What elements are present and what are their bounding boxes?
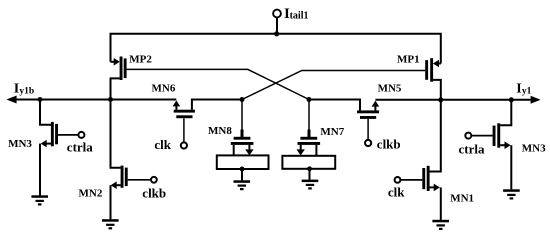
- transistor MN3 right: [465, 100, 519, 200]
- wire MN3R gate: [471, 135, 492, 137]
- node MN7 box bottom junction: [307, 166, 312, 171]
- wire Itail1 to top rail: [276, 17, 278, 33]
- MN6 source arrow up: [175, 106, 177, 110]
- MN3L channel bar: [51, 122, 54, 146]
- MN8 channel bar: [231, 142, 254, 145]
- svg-text:clkb: clkb: [142, 186, 166, 201]
- svg-text:MN2: MN2: [79, 188, 103, 200]
- MN3L source wire with arrow: [46, 143, 51, 145]
- wire top rail (MP2 source to MP1 source): [111, 34, 441, 64]
- MN6 gate bar: [176, 115, 192, 118]
- varactor MN7: [282, 100, 335, 190]
- transistor MP2: [111, 57, 127, 100]
- transistor MN3 left: [31, 100, 84, 206]
- MP2 source arrow: [114, 58, 120, 66]
- MN2 source wire with arrow: [116, 184, 120, 186]
- svg-text:y1: y1: [522, 86, 532, 96]
- svg-text:MN3: MN3: [522, 143, 546, 155]
- node junction B (cross/MN7/MN5): [307, 97, 312, 102]
- node MN3R drain junction: [509, 97, 514, 102]
- wire MP2 drain: [111, 78, 120, 99]
- wire MP2 source stub: [111, 61, 115, 63]
- svg-text:MN7: MN7: [320, 126, 344, 138]
- terminal clkb circle (MN2 gate): [151, 177, 157, 183]
- MN8 left terminal: [233, 145, 235, 156]
- MN1 gate bar: [422, 168, 425, 189]
- wire MP1 drain: [433, 80, 441, 100]
- transistor MN1: [395, 100, 449, 230]
- svg-text:MP2: MP2: [129, 54, 152, 66]
- ground (MN3R): [503, 189, 520, 192]
- wire MP1 source stub: [437, 63, 441, 65]
- MN3R channel bar: [497, 123, 500, 147]
- MN1 source wire with arrow: [430, 186, 435, 188]
- wire MN1 gate: [400, 179, 422, 181]
- wire MN8 to ground: [241, 169, 243, 181]
- MN2 gate bar: [125, 168, 128, 187]
- svg-text:y1b: y1b: [19, 86, 34, 96]
- wire MN5 gate stub: [367, 119, 369, 140]
- ground (MN2): [102, 219, 119, 222]
- MN7 channel bar: [298, 142, 321, 145]
- varactor MN8: [217, 100, 269, 191]
- svg-text:ctrla: ctrla: [459, 141, 485, 156]
- MN8 bulk box: [217, 155, 269, 169]
- wire MN3L drain: [40, 100, 51, 125]
- svg-text:MN1: MN1: [450, 192, 474, 204]
- wire MN5 drain to junction B: [309, 100, 360, 111]
- MN8 gate bar: [234, 137, 251, 140]
- transistor MN6 (rail switch): [173, 100, 242, 149]
- wire MN2 gate: [128, 179, 151, 181]
- wire MN2 drain: [111, 100, 121, 168]
- MN3L gate bar: [55, 124, 58, 144]
- terminal clk circle (MN6 gate): [181, 142, 187, 148]
- MP1 gate bar: [425, 60, 428, 80]
- MN5 gate bar: [360, 116, 376, 119]
- svg-text:MN8: MN8: [208, 125, 232, 137]
- wire MN6 gate stub: [183, 118, 185, 142]
- svg-text:MN3: MN3: [8, 138, 32, 150]
- wire left output rail: [9, 99, 176, 101]
- ground (MN3L): [31, 195, 48, 198]
- MN2 channel bar: [121, 166, 124, 188]
- svg-text:clk: clk: [388, 185, 405, 200]
- node junction dot on top rail: [274, 31, 279, 36]
- terminal clk circle (MN1 gate): [395, 177, 401, 183]
- terminal Itail1 (open circle): [273, 10, 281, 18]
- node MP1 drain junction: [438, 97, 443, 102]
- ground (MN8): [234, 180, 251, 183]
- svg-text:MP1: MP1: [397, 54, 420, 66]
- wire MP2 gate to cross: [127, 69, 309, 99]
- wire MN7 to ground: [309, 169, 311, 180]
- wire MN7 gate from junction B: [308, 100, 310, 131]
- svg-text:tail1: tail1: [290, 11, 309, 22]
- MN7 left terminal with down arrow: [300, 145, 302, 150]
- MN5 channel bar: [357, 110, 379, 113]
- terminal clkb circle (MN5 gate): [365, 140, 371, 146]
- wire MN3R drain: [500, 100, 511, 125]
- MN7 bulk box: [282, 156, 335, 169]
- node MN8 box bottom junction: [240, 167, 245, 172]
- terminal ctrla circle (MN3L gate): [78, 132, 84, 138]
- node junction A (cross/MN6/MN8): [240, 97, 245, 102]
- ground (MN1): [432, 220, 449, 223]
- svg-text:clkb: clkb: [377, 137, 401, 152]
- MN7 gate bar: [300, 137, 317, 140]
- svg-text:MN6: MN6: [152, 83, 176, 95]
- wire MN8 gate from junction A: [241, 100, 243, 131]
- MN6 channel bar: [174, 110, 195, 113]
- node MN3L drain junction: [38, 97, 43, 102]
- label Iy1: [516, 81, 531, 96]
- MN3R gate bar: [493, 126, 496, 146]
- transistor MP1: [425, 58, 441, 100]
- ground (MN7): [302, 180, 319, 183]
- MP1 channel bar: [430, 58, 433, 81]
- wire MP1 gate to cross: [242, 71, 425, 100]
- label Itail1: [284, 6, 308, 22]
- MP1 source arrow: [433, 60, 439, 68]
- wire right output rail: [375, 99, 533, 101]
- svg-text:ctrla: ctrla: [67, 140, 93, 155]
- label Iy1b: [14, 81, 34, 96]
- MN3R source wire with arrow: [500, 144, 505, 146]
- MP2 channel bar: [120, 57, 123, 81]
- terminal ctrla circle (MN3R gate): [465, 133, 471, 139]
- transistor MN2: [102, 100, 157, 230]
- node MP2 drain junction: [108, 97, 113, 102]
- MN8 right terminal with down arrow: [248, 145, 250, 150]
- svg-text:MN5: MN5: [378, 82, 402, 94]
- wire MN6 drain to junction A: [192, 100, 242, 110]
- wire MN3L gate: [58, 134, 79, 136]
- wire MN1 drain: [430, 100, 441, 172]
- MN7 right terminal: [315, 145, 317, 156]
- transistor MN5 (rail switch): [309, 100, 379, 147]
- terminal arrow Iy1: [531, 96, 541, 104]
- MN1 channel bar: [427, 166, 430, 191]
- svg-text:clk: clk: [154, 137, 171, 152]
- MN5 source arrow up: [374, 106, 376, 110]
- terminal arrow Iy1b: [6, 96, 16, 104]
- MP2 gate bar: [124, 58, 127, 78]
